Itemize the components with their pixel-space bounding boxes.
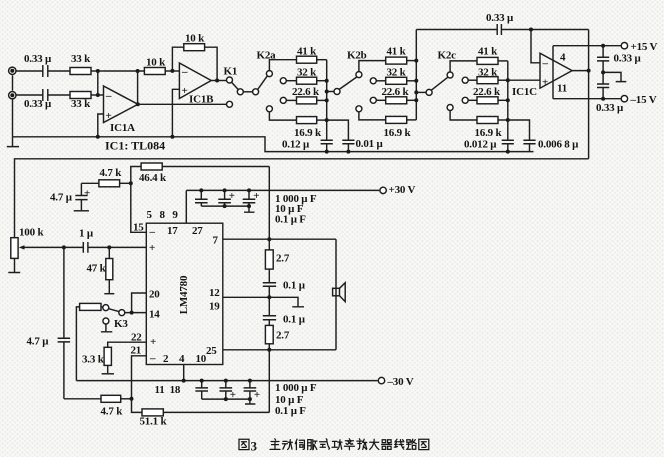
wire K2a row1 [269,60,296,71]
junction [247,188,251,192]
capacitor 0.33u (input 2) [16,89,70,101]
svg-text:–: – [542,58,549,70]
svg-text:+: + [230,389,236,401]
svg-text:3.3 k: 3.3 k [82,354,105,366]
capacitor bypass bottom 1 [195,381,208,400]
junction [136,102,140,106]
capacitor 4.7u upper [75,183,87,210]
node zobel mid [267,295,271,299]
potentiometer 100k [11,238,64,259]
svg-text:22: 22 [131,332,142,344]
terminal +15V [621,43,627,49]
capacitor 0.33u on -15V [597,61,609,99]
wire K2c row2 [468,79,477,81]
wire pins 12 19 [223,296,269,298]
char 率 [344,439,354,450]
resistor 10k (IC1B feedback) [172,44,217,81]
char 器 [382,440,392,450]
svg-text:41 k: 41 k [297,46,317,58]
svg-text:10: 10 [196,353,207,365]
speaker line [335,239,337,350]
svg-text:15: 15 [133,222,144,234]
svg-text:33 k: 33 k [71,98,91,110]
switch K2c common [426,89,432,95]
wire K2c row1 [450,61,477,72]
switch K2c lever [431,77,448,90]
svg-text:+: + [182,85,188,97]
resistor 16.9k K2c [477,117,508,124]
wire IC1B output [211,80,226,82]
resistor 2.7 lower [265,325,273,349]
svg-text:4.7 k: 4.7 k [100,167,123,179]
switch K2b row2 contact [370,78,376,84]
junction [601,70,605,74]
svg-text:100 k: 100 k [19,227,44,239]
svg-text:32 k: 32 k [297,67,317,79]
svg-text:K1: K1 [224,66,238,78]
resistor 46.4k [131,163,269,183]
wire pin 22 [108,342,147,347]
svg-text:0.006 8 μ: 0.006 8 μ [538,139,579,151]
resistor 47k [106,247,113,293]
resistor 41k K2a [297,56,327,63]
bus K2b [415,30,417,120]
resistor 32k K2b [386,77,417,84]
switch K2b row3 contact [370,97,376,103]
junction [325,79,329,83]
capacitor 1u [64,242,146,253]
switch K2c row2 contact [462,77,468,83]
bus bypass top bottoms [201,205,249,207]
switch K2b throw F [356,106,362,112]
wire K2b row1 [359,61,386,72]
svg-text:0.33 μ: 0.33 μ [24,53,52,65]
resistor 32k K2c [477,77,508,84]
ground symbol at rail left [7,137,19,147]
svg-text:+: + [254,389,260,401]
resistor 16.9k K2a [297,117,327,124]
svg-text:–: – [149,226,156,238]
svg-text:22.6 k: 22.6 k [292,86,320,98]
svg-text:0.33 μ: 0.33 μ [614,53,642,65]
ground rail top section [13,137,534,152]
svg-text:4: 4 [179,353,185,365]
svg-text:10 k: 10 k [185,33,205,45]
switch K1 lever [232,82,238,89]
wire output B to speaker bottom [269,349,336,351]
wire IC1A plus input to ground [98,114,104,137]
wire K2b bus to K2c input [416,91,426,93]
wire K2a bus to K2b input [327,91,334,93]
svg-text:0.33 μ: 0.33 μ [596,102,624,114]
capacitor 0.33u feedback [497,24,501,35]
+30V bus [186,189,379,191]
char 服 [308,440,317,450]
ground zobel mid [269,297,304,307]
wire K2a row4 [269,112,296,120]
svg-text:25: 25 [206,345,217,357]
ground bypass top [244,206,255,212]
capacitor bypass top 2 [218,190,231,206]
svg-text:2.7: 2.7 [276,330,290,342]
wire long line IC1C output to bottom section [15,159,589,238]
svg-text:0.1 μ: 0.1 μ [283,314,306,326]
junction [200,379,204,383]
resistor 41k K2b [386,57,417,64]
capacitor 0.1u lower [263,297,276,325]
wire K2b row4 [359,112,386,120]
char 线 [394,439,404,449]
svg-text:+: + [106,110,112,122]
switch K2c throw F [447,105,453,111]
resistor 16.9k K2b [386,116,417,123]
wire jack ground link [12,75,14,136]
svg-text:4: 4 [560,52,566,64]
char 功 [332,440,342,450]
resistor 51.1k [132,399,270,416]
svg-text:+: + [229,190,235,202]
switch K2b common [334,89,340,95]
wire pin 7 [223,238,269,240]
capacitor 0.33u (input 1) [16,65,70,77]
switch K1 contact A [227,77,233,83]
switch K3 pole [119,310,125,316]
junction [215,79,219,83]
svg-text:–30 V: –30 V [387,376,414,388]
svg-text:LM4780: LM4780 [178,275,190,314]
resistor 22.6k K2c [477,97,508,104]
svg-text:16.9 k: 16.9 k [384,127,412,139]
junction [414,90,418,94]
input jack J2 [9,92,16,99]
svg-text:14: 14 [149,309,160,321]
ground bypass bottom [245,399,255,404]
svg-text:5 8 9: 5 8 9 [147,209,179,221]
node minus input IC1A [96,93,100,97]
switch K1 pole B [237,89,243,95]
wire K2c row4 [450,111,477,121]
junction [601,44,605,48]
junction [170,135,174,139]
capacitor 0.33u on +15V [597,46,609,61]
input jack J1 [9,67,16,74]
svg-text:19: 19 [209,301,220,313]
char 动 [282,440,292,450]
char 路 [407,439,417,449]
resistor 22.6k K2b [386,97,417,104]
svg-text:–: – [181,66,188,78]
svg-text:22.6 k: 22.6 k [382,86,410,98]
svg-text:IC1C: IC1C [512,86,537,98]
node feedback column row1 [136,69,140,73]
wire pin 20 [132,293,147,313]
junction [506,98,510,102]
svg-text:41 k: 41 k [387,46,407,58]
svg-text:51.1 k: 51.1 k [140,416,168,428]
ground between supply caps [603,72,626,81]
char 式 [320,439,330,449]
junction [199,188,203,192]
svg-text:0.1 μ F: 0.1 μ F [275,405,306,417]
-30V bus [76,380,377,382]
capacitor 0.012u [502,140,514,151]
bus K2a [326,60,328,141]
ground below 47k [104,293,114,295]
svg-text:47 k: 47 k [87,263,107,275]
svg-text:4.7 k: 4.7 k [101,406,124,418]
svg-text:20: 20 [149,289,160,301]
node 47k top [107,245,111,249]
node after 33k row1 [96,69,100,73]
wire IC1A output to K1 [138,103,226,105]
wire IC1A output feedback up [137,71,139,104]
svg-text:IC1B: IC1B [189,94,214,106]
resistor 3.3k [104,347,111,373]
junction [223,188,227,192]
resistor 33k (input 1) [70,68,104,75]
junction [346,150,350,154]
switch K2c throw D [447,72,453,78]
switch K2a lever C-D [258,76,268,89]
junction [96,135,100,139]
wire K3 pole to pin 14 [125,312,147,314]
wire IC1C output [572,70,589,72]
char 大 [370,439,379,449]
svg-text:K3: K3 [114,318,128,330]
svg-text:K2a: K2a [257,50,277,62]
svg-text:11: 11 [557,83,567,95]
wire pin 21 [132,356,147,399]
junction [506,78,510,82]
capacitor bypass bottom 3 [244,381,257,400]
svg-text:+15 V: +15 V [631,41,658,53]
wire pins 5 8 9 [185,190,187,223]
svg-text:21: 21 [131,345,142,357]
wire pins 11 18 [183,365,185,381]
op-amp IC1B [179,63,211,99]
speaker [333,283,346,302]
resistor 32k K2a [297,77,327,84]
junction [248,397,252,401]
wire K2a row2 [286,80,296,82]
switch K2a row2 contact [280,78,286,84]
switch K3 throw bottom (grounded) [103,318,109,324]
svg-text:+: + [84,188,90,200]
IC LM4780 box [146,223,223,364]
junction [248,379,252,383]
svg-text:0.012 μ: 0.012 μ [464,139,497,151]
svg-text:0.1 μ: 0.1 μ [283,280,306,292]
switch K2a throw D [266,71,272,77]
wire B to C [243,91,252,93]
switch K1 contact E [227,101,233,107]
junction [130,311,134,315]
ground below potentiometer [8,258,20,272]
wire output/feedback vertical [588,30,590,159]
switch K2b lever [339,77,357,89]
svg-text:+30 V: +30 V [389,184,416,196]
svg-text:32 k: 32 k [387,67,407,79]
SCHEMATIC CONTENT [7,44,534,152]
svg-text:11 18: 11 18 [155,384,181,396]
char 图 (second) [419,439,429,449]
svg-text:–15 V: –15 V [630,94,657,106]
svg-text:41 k: 41 k [478,46,498,58]
svg-text:0.1 μ F: 0.1 μ F [275,213,306,225]
junction [325,90,329,94]
capacitor 0.12u [321,140,333,151]
wire row1 to feedback node [104,70,145,72]
switch K3 throw top [103,305,109,311]
ground below 3.3k [102,373,114,375]
wire link rows [97,71,99,95]
wire to IC1C minus [531,30,540,63]
junction [224,379,228,383]
resistor 4.7k upper [81,180,130,187]
wire IC1B plus to ground [172,89,179,137]
junction [182,379,186,383]
junction [414,79,418,83]
svg-text:33 k: 33 k [71,53,91,65]
wire output to speaker top [269,238,336,240]
resistor mute feed (unlabeled) [76,303,103,380]
switch K2a throw F [266,106,272,112]
resistor 41k K2c [477,57,508,64]
svg-text:4.7 μ: 4.7 μ [50,192,73,204]
char 伺 [295,439,304,449]
junction [587,69,591,73]
svg-text:–: – [149,353,156,365]
terminal -30V [378,377,384,383]
node IC1B minus [170,69,174,73]
caption 图3 主动伺服式功率放大器线路图 (drawn strokes, CJK font unavailable) [239,439,429,454]
junction [414,59,418,63]
wire K2c bus to IC1C plus [508,79,540,81]
wire output B down to 51.1k [268,350,270,413]
op-amp IC1C [540,53,572,88]
resistor 2.7 upper [265,239,273,283]
svg-text:+: + [149,242,155,254]
ground below K3 [101,324,112,332]
svg-text:+: + [253,190,259,202]
bus K2c [507,61,509,140]
resistor 33k (input 2) [70,92,104,99]
svg-text:22.6 k: 22.6 k [473,86,501,98]
resistor 4.7k lower [64,395,132,402]
svg-text:4.7 μ: 4.7 μ [27,336,50,348]
power pins rail IC1C [553,46,621,99]
svg-text:32 k: 32 k [478,67,498,79]
svg-text:12: 12 [209,287,220,299]
svg-text:0.12 μ: 0.12 μ [282,139,310,151]
wire pin15 [131,183,147,232]
junction [506,118,510,122]
ground below 4.7u upper [74,210,89,212]
capacitor bypass bottom 2 [220,381,233,400]
junction [601,97,605,101]
junction [267,237,271,241]
wire K2a row3 [286,99,296,101]
svg-text:+: + [150,336,156,348]
junction [325,98,329,102]
svg-text:K2b: K2b [347,50,367,62]
op-amp IC1A [104,86,139,123]
capacitor 0.0068u [508,120,536,152]
junction [224,397,228,401]
bus bypass bottom [202,398,250,400]
junction [325,150,329,154]
wire K2b row3 [376,99,385,101]
junction [414,98,418,102]
capacitor 0.1u upper [263,283,276,298]
switch K2c row3 contact [462,97,468,103]
junction [529,28,533,32]
svg-text:16.9 k: 16.9 k [475,127,503,139]
svg-text:K2c: K2c [438,50,457,62]
svg-text:7: 7 [213,235,219,247]
wire K2c row3 [468,99,477,101]
svg-text:IC1A: IC1A [110,122,135,134]
svg-text:IC1: TL084: IC1: TL084 [105,139,165,153]
svg-text:27: 27 [192,225,203,237]
wire output node vertical [268,167,270,240]
svg-text:1 μ: 1 μ [79,228,94,240]
svg-text:0.33 μ: 0.33 μ [486,12,514,24]
svg-text:1 000 μ F: 1 000 μ F [275,382,317,394]
char 放 [357,439,367,450]
capacitor bypass top 3 [243,190,256,206]
switch K2b throw D [356,72,362,78]
node 4.7k/46.4k junction [129,181,133,185]
svg-text:3: 3 [251,439,258,454]
node wiper [62,245,66,249]
wire K2b row2 [376,80,385,82]
svg-text:46.4 k: 46.4 k [139,172,167,184]
resistor 22.6k K2a [297,97,327,104]
svg-text:2: 2 [163,353,169,365]
junction [223,204,227,208]
switch K2a common C [253,89,259,95]
wire feedback top line [416,29,497,31]
junction [325,118,329,122]
svg-text:+: + [542,77,548,89]
svg-text:0.01 μ: 0.01 μ [356,138,384,150]
node feedback junction [130,397,134,401]
svg-text:–: – [105,90,112,102]
junction [506,150,510,154]
switch K2a row3 contact [280,97,286,103]
junction [247,204,251,208]
char 图 [239,439,249,449]
wire pin 25 [223,349,269,351]
capacitor bypass top 1 [195,190,208,206]
svg-text:0.33 μ: 0.33 μ [24,98,52,110]
char 主 [270,439,280,450]
capacitor 4.7u lower [58,247,71,398]
svg-text:2.7: 2.7 [276,253,290,265]
terminal -15V [621,96,627,102]
svg-text:10 k: 10 k [146,57,166,69]
terminal +30V [380,187,386,193]
resistor 10k (IC1B input) [144,68,179,75]
capacitor 0.01u [327,120,355,152]
svg-text:17: 17 [167,225,178,237]
switch K3 lever [109,309,119,312]
node pin25/output B [267,348,271,352]
svg-text:16.9 k: 16.9 k [294,127,322,139]
